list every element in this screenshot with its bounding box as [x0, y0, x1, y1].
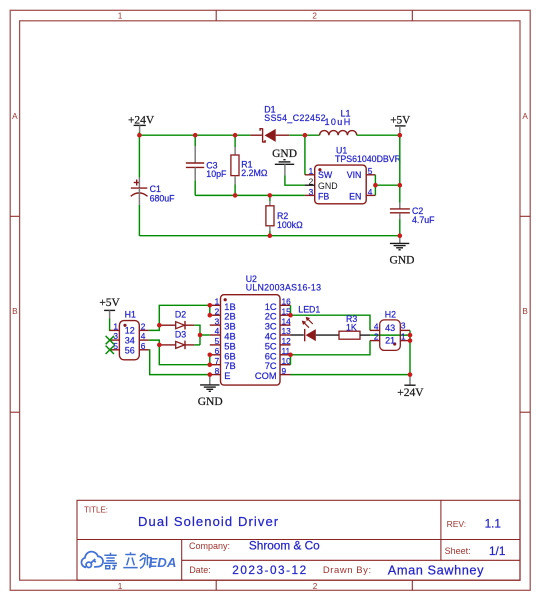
pin 3 FB stub [305, 194, 315, 196]
resistor R2 [266, 201, 303, 231]
svg-text:H1: H1 [125, 309, 136, 319]
svg-text:3B: 3B [224, 322, 235, 332]
wire +24V stem [138, 132, 140, 135]
diode D2 [161, 310, 194, 330]
wire H1 pin6 to U2 pin8 [149, 350, 210, 375]
wire node to U2 pin1 [159, 305, 210, 325]
wire U2 pin13 to LED [291, 334, 304, 336]
wire D1 to SW node [289, 134, 319, 136]
svg-text:H2: H2 [385, 310, 396, 320]
wire D3 node to U2 pin7 [159, 345, 210, 365]
no-connect X pin3 [106, 336, 114, 344]
svg-text:43: 43 [385, 323, 395, 333]
svg-text:ULN2003AS16-13: ULN2003AS16-13 [246, 283, 322, 293]
power flag +5V bottom [99, 297, 120, 319]
wire EN node to +5V rail [375, 184, 399, 186]
wire +24V rail down [409, 341, 411, 375]
junction dots bottom [157, 303, 412, 377]
capacitor C1 [131, 178, 175, 205]
wire U2 pin11-pin10 tie [290, 355, 292, 365]
wire VIN-EN tie [374, 175, 376, 196]
svg-text:21: 21 [385, 336, 395, 346]
svg-text:2C: 2C [265, 312, 277, 322]
svg-text:B: B [522, 307, 528, 316]
LOGO [81, 552, 103, 568]
wire +5V rail down [399, 135, 401, 203]
wire 6C to H2 pin2 [291, 341, 371, 355]
capacitor C3 [186, 146, 227, 180]
wire GND1 to U1 pin2 [285, 175, 315, 185]
wire LED to R3 [316, 334, 339, 336]
wire U2 pin1-pin2 tie [209, 305, 211, 315]
svg-text:TPS61040DBVR: TPS61040DBVR [335, 154, 401, 164]
pin 4 H2 stub [370, 329, 380, 331]
ground GND3 [198, 375, 223, 408]
pin 2 H2 stub [370, 340, 380, 342]
svg-text:GND: GND [318, 181, 338, 191]
svg-text:1.1: 1.1 [485, 517, 501, 531]
svg-text:GND: GND [272, 148, 297, 160]
resistor R3 [339, 314, 360, 339]
svg-text:1: 1 [118, 582, 123, 591]
svg-text:+5V: +5V [390, 115, 410, 127]
IC U2 ULN2003AS16-13 [210, 274, 322, 385]
svg-text:2: 2 [312, 11, 317, 20]
wire L1 to +5V rail [357, 134, 400, 136]
wire R1 top branch [234, 135, 236, 147]
svg-text:VIN: VIN [347, 170, 362, 180]
svg-text:1/1: 1/1 [489, 544, 505, 558]
svg-text:10uH: 10uH [325, 117, 352, 127]
svg-text:Company:: Company: [189, 541, 230, 551]
svg-text:100kΩ: 100kΩ [277, 220, 303, 230]
wire R2 bottom branch [269, 231, 271, 236]
svg-text:2023-03-12: 2023-03-12 [232, 563, 307, 577]
svg-text:5B: 5B [224, 341, 235, 351]
svg-text:EDA: EDA [149, 555, 177, 570]
wire H1 pin2 to node [149, 325, 159, 330]
resistor R1 [231, 147, 268, 185]
svg-text:REV:: REV: [447, 519, 467, 529]
svg-text:COM: COM [255, 371, 277, 381]
power flag +24V [128, 114, 155, 132]
svg-text:Dual Solenoid Driver: Dual Solenoid Driver [138, 514, 279, 529]
pin 1 SW stub [305, 174, 315, 176]
svg-text:56: 56 [125, 346, 135, 356]
wire +5V to H1 pin1 [109, 319, 112, 331]
svg-text:+24V: +24V [128, 114, 155, 126]
inductor L1 [320, 108, 357, 135]
header H1 [110, 309, 149, 359]
TITLEBLOCK [77, 500, 520, 580]
wire C2 to bottom rail [399, 219, 401, 236]
svg-text:+5V: +5V [99, 297, 120, 309]
power flag +24V bottom [397, 375, 424, 399]
pin 1 H1 stub [110, 329, 120, 331]
svg-text:D2: D2 [175, 310, 186, 320]
wire C3 bottom branch [194, 180, 196, 195]
svg-text:LED1: LED1 [298, 305, 320, 315]
svg-text:34: 34 [125, 336, 135, 346]
wire R3 to +24V rail [370, 334, 410, 336]
svg-text:Drawn By:: Drawn By: [323, 565, 372, 576]
wire C3 top branch [194, 135, 196, 146]
svg-text:+24V: +24V [397, 387, 424, 399]
svg-text:E: E [224, 371, 230, 381]
svg-text:1: 1 [401, 331, 406, 341]
wire +5V stem [399, 133, 401, 135]
svg-text:Shroom & Co: Shroom & Co [249, 538, 320, 552]
svg-text:GND: GND [198, 396, 223, 408]
svg-text:4C: 4C [265, 332, 277, 342]
svg-text:10pF: 10pF [206, 169, 227, 179]
svg-text:Aman Sawhney: Aman Sawhney [388, 563, 484, 578]
wire SW node down [304, 135, 306, 175]
capacitor C2 [390, 203, 435, 225]
junction dots top [137, 133, 402, 238]
wire U2 pin6-pin7 tie [209, 355, 211, 365]
diode D1 [250, 104, 326, 142]
svg-text:A: A [522, 112, 528, 121]
svg-text:Date:: Date: [189, 565, 211, 575]
svg-text:7C: 7C [265, 361, 277, 371]
pin 4 EN stub [366, 194, 375, 196]
wire R1 bottom branch [234, 185, 236, 196]
svg-text:3C: 3C [265, 322, 277, 332]
svg-text:EN: EN [349, 191, 361, 201]
svg-text:SW: SW [318, 170, 333, 180]
wire R2 top branch [269, 195, 271, 201]
diode D3 [161, 329, 194, 349]
IC U1 TPS61040DBVR [309, 146, 401, 204]
svg-text:2: 2 [374, 332, 379, 342]
svg-text:3: 3 [401, 320, 406, 330]
pin 5 VIN stub [366, 174, 375, 176]
svg-text:TITLE:: TITLE: [84, 505, 108, 514]
wire D3 cathode [194, 344, 200, 346]
wire H2 pin3 to rail [409, 330, 411, 340]
wire R3 right black [360, 334, 370, 336]
svg-text:12: 12 [125, 326, 135, 336]
svg-text:SS54_C22452: SS54_C22452 [264, 113, 326, 123]
ground flag GND1 [272, 148, 297, 176]
svg-text:1C: 1C [265, 302, 277, 312]
wire C1 to bottom rail [138, 205, 140, 236]
wire FB row [195, 194, 305, 196]
svg-text:680uF: 680uF [150, 193, 176, 203]
wire bottom rail [139, 235, 399, 237]
svg-text:GND: GND [390, 254, 415, 266]
ground GND2 [390, 236, 415, 267]
svg-text:7B: 7B [224, 361, 235, 371]
wire D2 cathode down [194, 325, 200, 345]
svg-text:4.7uF: 4.7uF [412, 215, 435, 225]
LED LED1 [298, 305, 320, 342]
wire U2 pin16-pin15 tie [290, 305, 292, 315]
header H2 [374, 310, 410, 351]
wire 2C to H2 pin4 [291, 315, 371, 330]
wire left rail down [138, 135, 140, 177]
svg-text:6B: 6B [224, 351, 235, 361]
svg-text:6C: 6C [265, 351, 277, 361]
svg-text:2B: 2B [224, 312, 235, 322]
svg-text:B: B [12, 307, 18, 316]
svg-text:5C: 5C [265, 341, 277, 351]
svg-text:1: 1 [118, 11, 123, 20]
wire diode node to U2 pin4 [200, 334, 210, 336]
wire top rail left [139, 134, 250, 136]
no-connect X pin5 [106, 346, 114, 354]
svg-text:4B: 4B [224, 332, 235, 342]
power flag +5V [390, 115, 410, 134]
svg-text:1B: 1B [224, 302, 235, 312]
svg-text:2: 2 [313, 582, 318, 591]
svg-text:D3: D3 [175, 329, 186, 339]
svg-text:1: 1 [113, 321, 118, 331]
wire H1 pin4 to D3 [149, 340, 159, 345]
wire U2 pin9 COM to rail [291, 374, 411, 376]
svg-text:2.2MΩ: 2.2MΩ [241, 168, 268, 178]
svg-text:Sheet:: Sheet: [445, 546, 471, 556]
svg-text:A: A [12, 112, 18, 121]
svg-text:4: 4 [374, 321, 379, 331]
svg-text:FB: FB [318, 191, 329, 201]
